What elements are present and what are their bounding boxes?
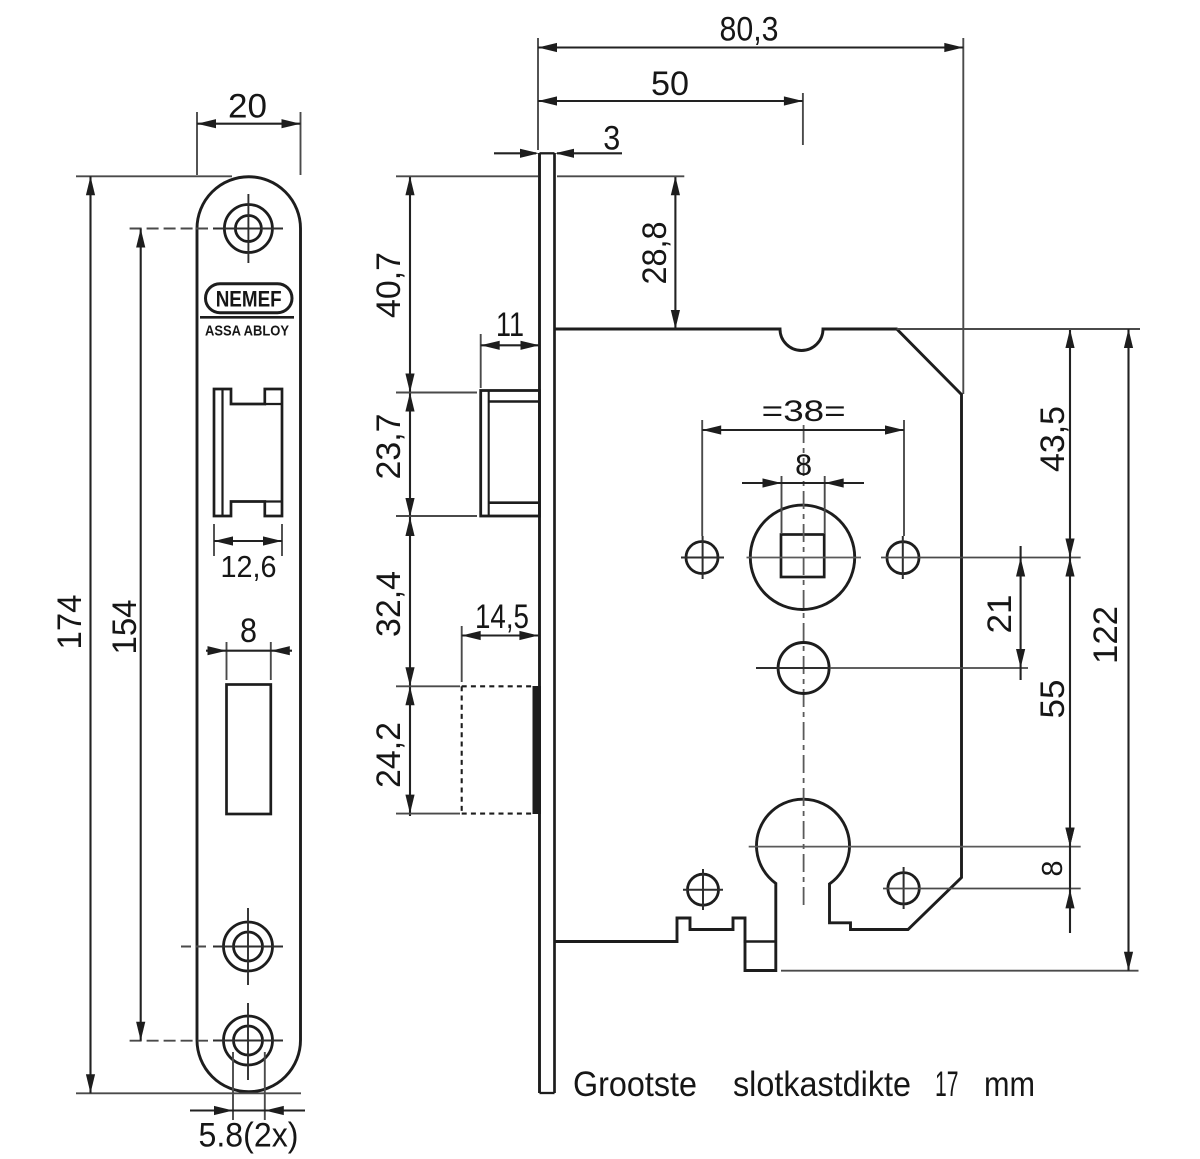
- svg-text:=38=: =38=: [762, 395, 846, 428]
- spindle square 8mm: [781, 535, 824, 578]
- svg-text:55: 55: [1034, 680, 1072, 719]
- dimension 11: [481, 306, 540, 388]
- screw hole top: [181, 194, 283, 263]
- svg-text:24,2: 24,2: [370, 722, 408, 788]
- faceplate side view: [540, 153, 555, 1093]
- follower hole: [756, 643, 1028, 694]
- note: Grootste slotkastdikte 17 mm: [573, 1065, 1035, 1104]
- cylinder centerline horizontal: [749, 846, 1081, 848]
- svg-text:5.8(2x): 5.8(2x): [199, 1117, 299, 1155]
- screw hole lower-2: [213, 1003, 283, 1080]
- dimension 50: [538, 65, 803, 145]
- faceplate outline: [197, 177, 301, 1092]
- case bottom edge behind cylinder tab: [744, 940, 777, 943]
- dimension 21: [981, 546, 1025, 680]
- svg-text:40,7: 40,7: [370, 252, 408, 318]
- svg-text:32,4: 32,4: [370, 571, 408, 637]
- hub/cylinder centerline vertical: [803, 425, 805, 906]
- screw hole bottom-left: [683, 869, 723, 910]
- dimension 8 (spindle): [742, 449, 864, 534]
- svg-text:12,6: 12,6: [221, 549, 277, 584]
- dimension 20: [197, 88, 301, 176]
- svg-text:80,3: 80,3: [720, 11, 779, 49]
- dimension 174: [51, 176, 301, 1093]
- dimension 12,6: [214, 524, 282, 584]
- deadbolt side view (retracted, dashed): [462, 686, 541, 814]
- dimension 28,8: [636, 176, 680, 329]
- svg-text:8: 8: [795, 449, 812, 482]
- dimension 122: [781, 329, 1140, 971]
- svg-text:154: 154: [106, 600, 144, 655]
- latch bolt side view: [481, 391, 540, 517]
- svg-text:43,5: 43,5: [1034, 406, 1072, 472]
- svg-text:11: 11: [496, 306, 524, 344]
- svg-text:14,5: 14,5: [475, 598, 529, 636]
- screw hole bottom-right: [883, 867, 1081, 909]
- svg-text:slotkastdikte: slotkastdikte: [733, 1065, 911, 1104]
- svg-text:17: 17: [935, 1065, 959, 1104]
- screw hole lower-1: [181, 908, 283, 985]
- dimension 14,5: [462, 598, 539, 682]
- ASSA ABLOY text: [200, 317, 294, 339]
- svg-text:174: 174: [51, 595, 89, 650]
- svg-text:8: 8: [1037, 861, 1069, 877]
- handle hub circle: [750, 505, 854, 609]
- dimension 3: [494, 120, 622, 158]
- dimension 8 (cylinder protrusion): [1037, 828, 1075, 909]
- left dimension column 40,7 / 23,7 / 32,4 / 24,2: [370, 176, 684, 816]
- lock case outline: [555, 329, 962, 971]
- dimension 55: [1034, 558, 1075, 847]
- latch cutout: [214, 389, 282, 516]
- dimension 8 (slot width): [206, 612, 292, 680]
- screw hole right (38 dim): [881, 536, 1081, 579]
- svg-text:NEMEF: NEMEF: [216, 287, 282, 312]
- svg-text:8: 8: [240, 612, 257, 650]
- svg-text:3: 3: [603, 120, 620, 158]
- dimension 154: [106, 229, 208, 1041]
- deadbolt slot: [227, 685, 271, 815]
- dimension 43,5: [1034, 329, 1075, 933]
- svg-text:28,8: 28,8: [636, 222, 674, 285]
- dimension 5,8(2x): [190, 1052, 305, 1155]
- svg-text:mm: mm: [984, 1065, 1035, 1104]
- svg-text:21: 21: [981, 595, 1019, 634]
- NEMEF logo: [206, 284, 293, 313]
- dimension 38: [702, 395, 904, 536]
- dimension 80,3: [538, 11, 963, 395]
- svg-text:20: 20: [228, 88, 267, 126]
- hub centerline horizontal: [747, 557, 862, 559]
- screw hole left (38 dim): [681, 536, 724, 579]
- svg-text:ASSA ABLOY: ASSA ABLOY: [205, 323, 289, 340]
- svg-text:Grootste: Grootste: [573, 1065, 697, 1104]
- svg-text:50: 50: [651, 65, 689, 103]
- svg-text:23,7: 23,7: [370, 414, 408, 480]
- svg-text:122: 122: [1087, 606, 1125, 664]
